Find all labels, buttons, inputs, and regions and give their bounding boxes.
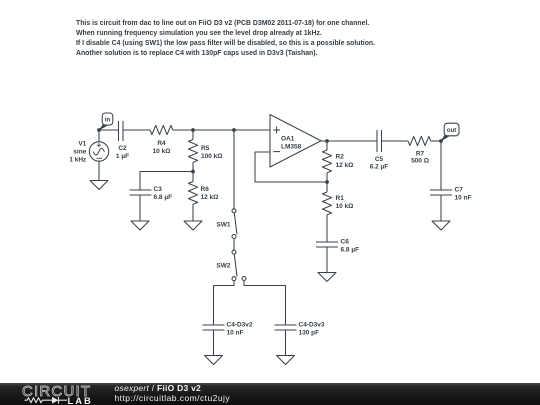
label R5 value bbox=[201, 145, 222, 160]
wire R6 to ground bbox=[192, 204, 194, 221]
label C6 value bbox=[341, 239, 360, 254]
svg-text:1 µF: 1 µF bbox=[116, 153, 129, 160]
wire node A to node B bbox=[193, 129, 234, 131]
label C7 value bbox=[455, 187, 472, 202]
wire R5 top lead bbox=[192, 130, 194, 140]
resistor R6 bbox=[188, 182, 197, 205]
capacitor C4-D3v3 bbox=[275, 325, 297, 330]
capacitor C5 bbox=[377, 130, 382, 152]
label C3 value bbox=[154, 186, 173, 201]
svg-text:V1: V1 bbox=[78, 141, 86, 148]
wire node B to op-amp + input bbox=[234, 129, 270, 131]
svg-text:C4-D3v3: C4-D3v3 bbox=[299, 322, 325, 329]
label R1 value bbox=[336, 195, 354, 210]
flag in bbox=[98, 113, 112, 131]
capacitor C6 bbox=[316, 242, 338, 247]
svg-text:SW1: SW1 bbox=[216, 221, 230, 228]
ground C7 bbox=[432, 221, 450, 230]
resistor R2 bbox=[322, 150, 331, 173]
svg-text:130 pF: 130 pF bbox=[299, 330, 320, 337]
op-amp U1 triangle bbox=[270, 115, 321, 168]
wire node B down to SW1 bbox=[233, 130, 235, 209]
svg-text:10 kΩ: 10 kΩ bbox=[336, 203, 354, 210]
svg-text:R6: R6 bbox=[201, 186, 210, 193]
ground C4-D3v2 bbox=[205, 356, 223, 365]
switch SW1 bbox=[232, 209, 237, 239]
capacitor C2 bbox=[119, 121, 124, 141]
label R6 value bbox=[201, 186, 219, 201]
label C2 value bbox=[116, 145, 129, 160]
svg-text:in: in bbox=[105, 117, 111, 123]
capacitor C3 bbox=[130, 190, 152, 195]
wire C4-D3v3 to ground bbox=[285, 330, 287, 356]
ground C6 bbox=[318, 273, 336, 282]
svg-text:C2: C2 bbox=[118, 145, 127, 152]
wire C5 to R7 bbox=[382, 140, 409, 142]
wire R5 bottom lead bbox=[192, 162, 194, 171]
svg-text:C4-D3v2: C4-D3v2 bbox=[227, 322, 253, 329]
wire R4 to node A bbox=[173, 129, 193, 131]
label R2 value bbox=[336, 154, 354, 169]
label C4-D3v3 value bbox=[299, 322, 325, 337]
label R7 value bbox=[411, 150, 429, 164]
ground R6 bbox=[184, 221, 202, 230]
voltage source V1 bbox=[89, 142, 108, 161]
ground C3 bbox=[131, 221, 149, 230]
svg-text:C6: C6 bbox=[341, 239, 350, 246]
node in junction dot bbox=[97, 128, 101, 132]
wire C6 to ground bbox=[326, 247, 328, 273]
label OA1 LM358 bbox=[281, 135, 302, 150]
resistor R5 bbox=[188, 140, 197, 163]
CircuitLab logo bbox=[0, 383, 110, 405]
wire op-amp - input feedback loop bbox=[255, 152, 327, 182]
wire node out down to C7 bbox=[440, 141, 442, 190]
description text block bbox=[76, 19, 375, 58]
svg-text:sine: sine bbox=[73, 149, 86, 156]
wire main node-in to C2 bbox=[99, 129, 119, 131]
wire V1 bottom lead to ground bbox=[98, 162, 100, 181]
node A junction dot bbox=[191, 128, 195, 132]
ground V1 bbox=[90, 181, 108, 190]
wire C3 to ground bbox=[139, 195, 141, 221]
svg-text:R5: R5 bbox=[201, 145, 210, 152]
label C5 value bbox=[370, 156, 389, 171]
wire R1 to C6 bbox=[326, 215, 328, 242]
svg-text:10 kΩ: 10 kΩ bbox=[153, 148, 171, 155]
wire C7 to ground bbox=[440, 195, 442, 221]
svg-text:6.8 µF: 6.8 µF bbox=[154, 194, 173, 201]
svg-text:6.2 µF: 6.2 µF bbox=[370, 164, 389, 171]
node feedback junction dot bbox=[325, 180, 329, 184]
switch SW2 bbox=[232, 250, 246, 281]
footer bar bbox=[0, 383, 540, 405]
svg-text:R2: R2 bbox=[336, 154, 345, 161]
ground C4-D3v3 bbox=[277, 356, 295, 365]
capacitor C7 bbox=[430, 190, 452, 195]
svg-text:C5: C5 bbox=[375, 156, 384, 163]
svg-text:100 kΩ: 100 kΩ bbox=[201, 153, 222, 160]
label C4-D3v2 value bbox=[227, 322, 253, 337]
wire R1 top lead bbox=[326, 182, 328, 192]
wire R6 top lead bbox=[192, 172, 194, 182]
svg-text:12 kΩ: 12 kΩ bbox=[201, 194, 219, 201]
op-amp - input symbol bbox=[273, 151, 280, 153]
svg-text:LAB: LAB bbox=[68, 395, 93, 405]
label R4 value bbox=[153, 140, 171, 155]
resistor R7 bbox=[408, 136, 431, 145]
svg-text:R7: R7 bbox=[416, 150, 425, 157]
svg-text:C3: C3 bbox=[154, 186, 163, 193]
wire R7 to node out bbox=[431, 140, 441, 142]
node out junction dot bbox=[439, 139, 443, 143]
node B junction dot bbox=[232, 128, 236, 132]
capacitor C4-D3v2 bbox=[203, 325, 225, 330]
svg-text:12 kΩ: 12 kΩ bbox=[336, 162, 354, 169]
svg-text:10 nF: 10 nF bbox=[455, 195, 472, 202]
resistor R1 bbox=[322, 192, 331, 215]
node C junction dot bbox=[191, 170, 195, 174]
resistor R4 bbox=[150, 125, 173, 134]
op-amp + input symbol bbox=[273, 127, 280, 134]
svg-text:R4: R4 bbox=[157, 140, 166, 147]
wire C4-D3v2 to ground bbox=[213, 330, 215, 356]
svg-text:6.8 µF: 6.8 µF bbox=[341, 247, 360, 254]
svg-text:1 kHz: 1 kHz bbox=[69, 157, 87, 164]
wire C2 to R4 bbox=[123, 129, 150, 131]
wire R2 bottom lead bbox=[326, 173, 328, 182]
wire SW1 to SW2 bbox=[233, 239, 235, 251]
svg-text:500 Ω: 500 Ω bbox=[411, 157, 429, 164]
wire node C to C3 branch bbox=[140, 172, 193, 191]
svg-text:LM358: LM358 bbox=[281, 143, 302, 150]
wire SW2 right throw to C4-D3v3 bbox=[244, 281, 286, 326]
flag out bbox=[440, 123, 459, 142]
svg-text:SW2: SW2 bbox=[216, 263, 230, 270]
svg-text:R1: R1 bbox=[336, 195, 345, 202]
wire V1 top lead bbox=[98, 130, 100, 142]
wire op-amp output to C5 bbox=[321, 140, 377, 142]
svg-text:OA1: OA1 bbox=[281, 135, 295, 142]
label V1 value bbox=[69, 141, 87, 164]
footer credit text bbox=[115, 383, 231, 403]
svg-text:out: out bbox=[447, 128, 456, 134]
wire SW2 left throw to C4-D3v2 bbox=[214, 281, 235, 325]
svg-text:10 nF: 10 nF bbox=[227, 330, 244, 337]
svg-text:C7: C7 bbox=[455, 187, 464, 194]
node output junction dot bbox=[325, 139, 329, 143]
wire R2 top lead bbox=[326, 141, 328, 150]
